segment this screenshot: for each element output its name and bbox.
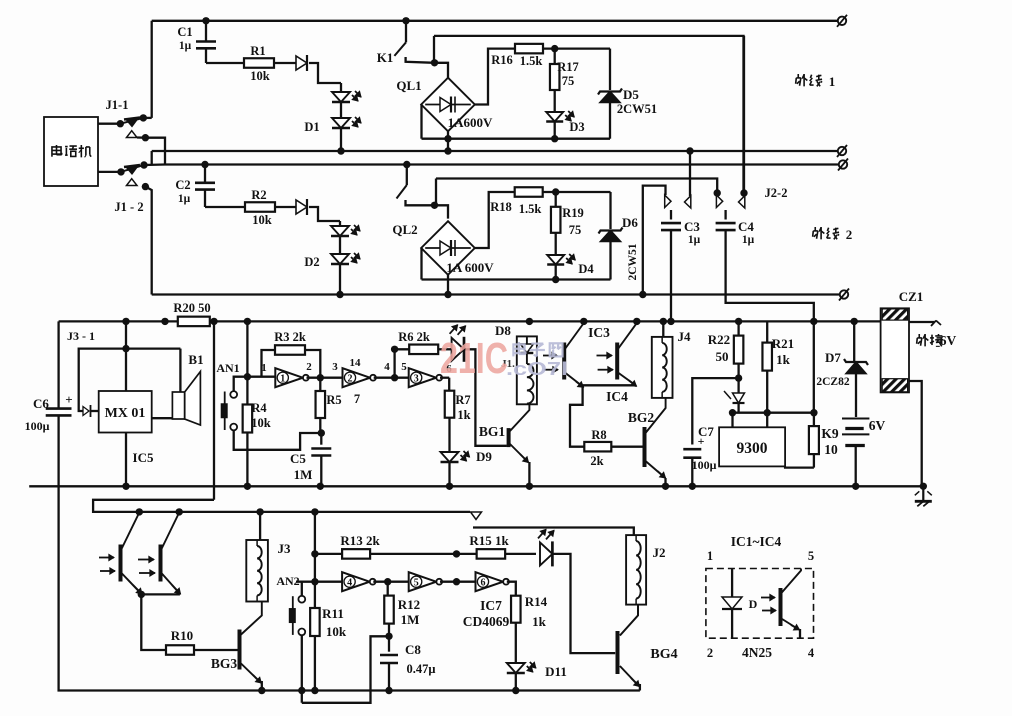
svg-text:100μ: 100μ (692, 458, 717, 472)
svg-text:C6: C6 (33, 396, 49, 411)
svg-text:C1: C1 (177, 25, 192, 39)
svg-text:D11: D11 (545, 664, 567, 679)
svg-text:CD4069: CD4069 (463, 614, 510, 629)
svg-text:K9: K9 (821, 426, 839, 441)
svg-text:R5: R5 (326, 393, 341, 407)
svg-text:MX 01: MX 01 (105, 406, 146, 421)
svg-text:R13 2k: R13 2k (340, 533, 380, 548)
svg-text:10k: 10k (252, 213, 272, 227)
svg-text:100μ: 100μ (25, 419, 50, 433)
svg-text:R14: R14 (525, 594, 548, 609)
svg-text:50: 50 (716, 349, 729, 364)
svg-text:R19: R19 (562, 206, 584, 220)
svg-text:BG2: BG2 (628, 410, 655, 425)
svg-text:R2: R2 (251, 188, 266, 202)
svg-text:R21: R21 (772, 336, 794, 351)
svg-text:R18: R18 (490, 200, 512, 214)
svg-text:2CZ82: 2CZ82 (816, 376, 849, 388)
svg-text:D9: D9 (476, 449, 492, 464)
svg-text:5: 5 (808, 549, 814, 563)
svg-text:2: 2 (846, 227, 853, 242)
svg-text:D3: D3 (569, 120, 584, 134)
svg-text:J2: J2 (653, 545, 666, 560)
svg-text:AN1: AN1 (216, 361, 239, 375)
svg-text:J1 - 2: J1 - 2 (114, 200, 143, 214)
svg-text:R3 2k: R3 2k (274, 330, 306, 344)
svg-text:R8: R8 (591, 428, 606, 442)
svg-text:75: 75 (562, 74, 575, 88)
svg-text:2: 2 (707, 646, 713, 660)
svg-text:5: 5 (414, 577, 419, 588)
svg-text:14: 14 (350, 357, 362, 369)
svg-text:J2-2: J2-2 (765, 186, 788, 200)
svg-text:1.5k: 1.5k (519, 202, 542, 216)
svg-text:IC3: IC3 (588, 325, 610, 340)
svg-text:IC5: IC5 (133, 450, 154, 465)
svg-text:1μ: 1μ (742, 234, 755, 246)
svg-text:1: 1 (707, 549, 713, 563)
svg-text:R7: R7 (455, 393, 470, 407)
svg-text:1A 600V: 1A 600V (446, 260, 494, 275)
svg-text:2CW51: 2CW51 (617, 102, 657, 116)
svg-text:1: 1 (829, 74, 836, 89)
svg-text:1M: 1M (294, 467, 313, 482)
svg-text:J1-1: J1-1 (106, 98, 129, 112)
svg-text:1k: 1k (776, 352, 791, 367)
svg-text:D: D (749, 597, 758, 611)
svg-text:2: 2 (348, 373, 353, 384)
svg-text:BG1: BG1 (479, 424, 506, 439)
svg-text:R16: R16 (491, 53, 513, 67)
svg-text:C2: C2 (175, 178, 190, 192)
svg-text:CZ1: CZ1 (899, 289, 924, 304)
svg-text:10k: 10k (326, 624, 347, 639)
svg-text:6V: 6V (869, 418, 886, 433)
svg-text:1A600V: 1A600V (448, 115, 493, 130)
svg-text:3: 3 (332, 361, 338, 373)
svg-text:D1: D1 (304, 120, 319, 134)
svg-text:4: 4 (347, 577, 352, 588)
svg-text:2k: 2k (590, 454, 603, 468)
svg-text:2: 2 (306, 361, 312, 373)
svg-text:9300: 9300 (737, 440, 768, 457)
svg-text:1k: 1k (457, 408, 470, 422)
svg-text:0.47μ: 0.47μ (407, 662, 436, 676)
svg-text:+: + (65, 392, 72, 407)
svg-text:21IC: 21IC (440, 334, 508, 383)
svg-text:3: 3 (414, 373, 419, 384)
svg-text:10: 10 (824, 442, 838, 457)
svg-text:R1: R1 (250, 44, 265, 58)
svg-text:10k: 10k (251, 416, 271, 430)
svg-text:1μ: 1μ (178, 193, 191, 205)
svg-text:C3: C3 (684, 219, 700, 234)
svg-text:R6 2k: R6 2k (398, 330, 430, 344)
svg-text:D2: D2 (304, 255, 319, 269)
svg-text:R11: R11 (322, 606, 344, 621)
svg-text:J3 - 1: J3 - 1 (67, 329, 95, 343)
svg-text:J4: J4 (678, 329, 692, 344)
svg-text:6: 6 (481, 577, 486, 588)
svg-text:4: 4 (808, 646, 815, 660)
svg-text:C5: C5 (290, 451, 306, 466)
svg-text:1: 1 (261, 362, 267, 374)
svg-text:BG4: BG4 (650, 647, 677, 662)
svg-text:1μ: 1μ (688, 234, 701, 246)
svg-text:IC7: IC7 (480, 598, 502, 613)
svg-text:.cO7l: .cO7l (506, 359, 568, 379)
svg-text:10k: 10k (250, 69, 270, 83)
svg-text:IC1~IC4: IC1~IC4 (731, 534, 782, 549)
svg-text:2CW51: 2CW51 (627, 243, 639, 280)
svg-text:D4: D4 (578, 262, 594, 276)
svg-text:J3: J3 (278, 541, 292, 556)
svg-text:7: 7 (354, 392, 360, 406)
svg-text:1M: 1M (401, 612, 420, 627)
svg-text:D7: D7 (825, 350, 841, 365)
svg-text:75: 75 (569, 223, 582, 237)
svg-text:R12: R12 (398, 597, 420, 612)
svg-text:IC4: IC4 (606, 389, 628, 404)
svg-text:4N25: 4N25 (742, 645, 772, 660)
svg-text:QL2: QL2 (392, 222, 417, 237)
svg-text:5: 5 (401, 361, 407, 373)
svg-text:K1: K1 (377, 50, 394, 65)
svg-text:C8: C8 (405, 642, 421, 657)
svg-text:D6: D6 (622, 215, 638, 230)
svg-text:R4: R4 (251, 401, 267, 415)
svg-text:R10: R10 (171, 628, 193, 643)
svg-text:1k: 1k (532, 614, 547, 629)
svg-text:1: 1 (280, 373, 285, 384)
svg-text:BG3: BG3 (211, 656, 238, 671)
svg-text:4: 4 (384, 361, 390, 373)
svg-text:B1: B1 (188, 352, 203, 367)
svg-text:C4: C4 (738, 219, 754, 234)
svg-text:R22: R22 (708, 332, 730, 347)
svg-text:6V: 6V (940, 333, 957, 348)
svg-text:+: + (698, 434, 705, 448)
svg-text:R20 50: R20 50 (173, 301, 210, 315)
svg-text:R15 1k: R15 1k (469, 533, 509, 548)
svg-text:D5: D5 (623, 87, 639, 102)
svg-text:1μ: 1μ (179, 40, 192, 52)
svg-text:1.5k: 1.5k (520, 54, 543, 68)
svg-text:R17: R17 (557, 60, 579, 74)
svg-text:QL1: QL1 (396, 78, 421, 93)
